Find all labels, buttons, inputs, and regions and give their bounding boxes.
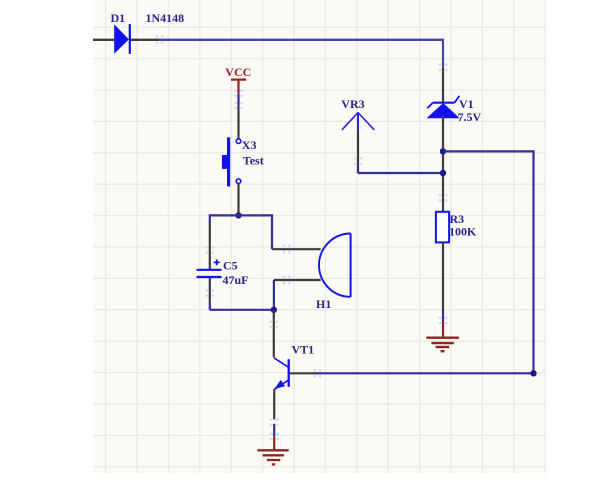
svg-text:H1: H1 [316, 297, 331, 311]
svg-text:Test: Test [243, 154, 264, 168]
svg-text:X3: X3 [242, 138, 257, 152]
svg-text:VT1: VT1 [292, 342, 315, 356]
svg-text:100K: 100K [449, 225, 477, 239]
svg-text:C5: C5 [223, 258, 238, 272]
svg-text:D1: D1 [111, 11, 126, 25]
svg-text:VR3: VR3 [341, 97, 364, 111]
svg-text:VCC: VCC [225, 65, 251, 79]
svg-text:47uF: 47uF [223, 273, 249, 287]
svg-text:7.5V: 7.5V [458, 110, 482, 124]
svg-text:1N4148: 1N4148 [146, 11, 185, 25]
